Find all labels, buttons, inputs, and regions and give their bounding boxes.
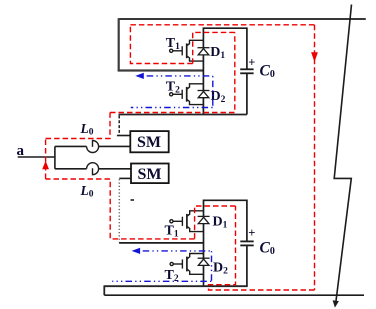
- blue bypass path (bottom SM): [112, 251, 211, 281]
- wire bottom-left step: [103, 285, 105, 295]
- blue segment out of SM1: [142, 75, 213, 77]
- wire SM1 leg: [202, 27, 204, 114]
- svg-text:+: +: [248, 56, 255, 70]
- diode D1 (top SM): [198, 48, 210, 55]
- svg-text:SM: SM: [137, 134, 161, 151]
- capacitor C0 top plates: [240, 68, 253, 70]
- svg-text:+: +: [248, 226, 255, 240]
- red segment to upper arm: [46, 113, 110, 139]
- wire SM1 bottom rail: [119, 114, 247, 116]
- blue segment out of SM2: [138, 250, 212, 252]
- wire SM2 cap branch lower: [246, 246, 248, 286]
- wire SM1 midpoint output: [118, 69, 204, 71]
- svg-text:SM: SM: [138, 166, 162, 183]
- wire bottom DC bus: [104, 294, 364, 296]
- transistor T1 (bottom SM): [170, 211, 204, 232]
- blue segment along SM2 bottom: [112, 280, 211, 282]
- SM box 1: [130, 131, 168, 152]
- svg-text:D2: D2: [213, 261, 228, 277]
- capacitor C0 bottom plates: [240, 240, 253, 242]
- svg-text:L0: L0: [80, 183, 94, 200]
- wire SM2 midpoint input: [119, 242, 203, 244]
- transistor T1 (top SM): [170, 40, 204, 61]
- ellipsis dotted link below SM box 2: [118, 179, 120, 242]
- red segment over D1 box: [193, 32, 235, 63]
- red segment top run to right: [130, 24, 314, 26]
- transistor T2 (top SM): [170, 84, 204, 105]
- blue segment down beside D2: [212, 76, 214, 108]
- red segment around T1 box: [130, 25, 192, 64]
- wire lower arm branch: [55, 168, 87, 170]
- wire SM2 bottom rail: [104, 285, 247, 287]
- wire SM1 cap branch upper: [246, 27, 248, 68]
- wire SM1 top rail: [203, 27, 247, 29]
- red segment up at node a: [45, 139, 47, 180]
- blue segment along SM1 bottom: [131, 107, 213, 109]
- wire SM2 leg: [203, 200, 205, 287]
- breaker arrowhead: [333, 300, 339, 307]
- wire node a: [18, 156, 55, 158]
- wire SM2 cap branch upper: [246, 200, 248, 241]
- blue arrow left (top SM): [135, 73, 144, 79]
- svg-text:L0: L0: [80, 121, 94, 138]
- wire top-left drop: [118, 18, 120, 70]
- continuation dash mark: [131, 199, 135, 201]
- svg-text:C0: C0: [260, 240, 275, 258]
- breaker slant line upper: [334, 5, 351, 302]
- red segment back to lower arm: [46, 179, 195, 239]
- inductor L0 lower: [87, 163, 99, 175]
- diode D2 (bottom SM): [198, 258, 210, 265]
- svg-text:C0: C0: [260, 63, 275, 81]
- inductor L0 upper: [87, 140, 99, 152]
- wire stub to SM box 1: [117, 135, 130, 137]
- red segment along SM1 bottom: [110, 32, 235, 112]
- wire fork vertical: [54, 146, 56, 168]
- red circulating current path loop: [46, 25, 315, 290]
- red segment right drop: [314, 25, 316, 290]
- blue bypass path (top SM): [131, 76, 213, 108]
- svg-text:T2: T2: [166, 80, 180, 96]
- svg-text:T1: T1: [166, 36, 180, 52]
- wire stub from SM box 2: [119, 177, 131, 179]
- red segment bottom run: [209, 206, 315, 290]
- transistor T2 (bottom SM): [170, 254, 203, 275]
- svg-text:D1: D1: [210, 45, 225, 61]
- SM box 2: [131, 164, 169, 184]
- diode D2 (top SM): [198, 91, 210, 98]
- svg-text:T1: T1: [165, 224, 179, 240]
- wire top DC bus: [119, 18, 366, 20]
- svg-text:D1: D1: [213, 215, 228, 231]
- red arrow down right side: [311, 52, 318, 62]
- wire SM1 cap branch lower: [246, 74, 248, 115]
- wire SM2 top rail: [204, 199, 247, 201]
- blue segment down beside bottom D2: [211, 251, 213, 281]
- red segment over bottom T1 box: [195, 206, 236, 239]
- diode D1 (bottom SM): [198, 216, 210, 223]
- ellipsis dashed link below SM1: [118, 116, 120, 136]
- blue arrow left (bottom SM): [132, 248, 141, 254]
- red arrow up near node a: [42, 161, 49, 170]
- wire upper arm branch: [55, 145, 87, 147]
